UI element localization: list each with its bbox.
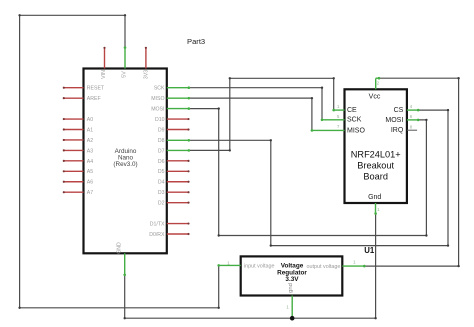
svg-text:MOSI: MOSI <box>385 117 403 124</box>
svg-text:IRQ: IRQ <box>391 127 404 134</box>
svg-text:U1: U1 <box>364 246 375 255</box>
svg-text:A3: A3 <box>87 148 93 154</box>
svg-text:A2: A2 <box>87 138 93 144</box>
svg-text:D4: D4 <box>158 180 165 186</box>
svg-text:MOSI: MOSI <box>151 107 164 113</box>
svg-text:CE: CE <box>347 107 357 114</box>
svg-text:output voltage: output voltage <box>307 264 341 270</box>
svg-text:D9: D9 <box>158 127 165 133</box>
svg-text:RESET: RESET <box>87 86 105 92</box>
svg-text:VIN: VIN <box>101 70 107 79</box>
svg-text:D2: D2 <box>158 201 165 207</box>
svg-text:D3: D3 <box>158 190 165 196</box>
svg-text:A0: A0 <box>87 117 93 123</box>
svg-text:AREF: AREF <box>87 96 101 102</box>
svg-text:D6: D6 <box>158 159 165 165</box>
svg-text:D5: D5 <box>158 169 165 175</box>
svg-text:NRF24L01+: NRF24L01+ <box>351 149 401 159</box>
svg-text:A7: A7 <box>87 190 93 196</box>
svg-text:CS: CS <box>394 107 404 114</box>
svg-text:gnd: gnd <box>288 283 294 293</box>
svg-text:A4: A4 <box>87 159 93 165</box>
svg-text:5V: 5V <box>122 71 128 78</box>
svg-text:(Rev3.0): (Rev3.0) <box>113 161 137 168</box>
svg-text:MISO: MISO <box>347 127 365 134</box>
svg-text:D0/RX: D0/RX <box>149 232 165 238</box>
svg-text:3V3: 3V3 <box>144 70 150 79</box>
svg-text:3.3V: 3.3V <box>285 276 299 283</box>
svg-text:GND: GND <box>117 242 123 254</box>
svg-text:Board: Board <box>363 172 388 182</box>
svg-text:D7: D7 <box>158 148 165 154</box>
svg-text:D10: D10 <box>155 117 165 123</box>
svg-text:D8: D8 <box>158 138 165 144</box>
svg-text:SCK: SCK <box>347 117 362 124</box>
svg-text:input voltage: input voltage <box>244 263 275 269</box>
svg-text:A1: A1 <box>87 127 93 133</box>
svg-text:A6: A6 <box>87 180 93 186</box>
svg-text:Breakout: Breakout <box>357 160 394 170</box>
svg-text:A5: A5 <box>87 169 93 175</box>
svg-text:MISO: MISO <box>151 96 164 102</box>
svg-text:Part3: Part3 <box>187 37 205 46</box>
svg-text:D1/TX: D1/TX <box>150 221 165 227</box>
svg-text:Gnd: Gnd <box>368 194 381 201</box>
svg-text:SCK: SCK <box>154 86 165 92</box>
svg-text:Vcc: Vcc <box>369 93 381 100</box>
